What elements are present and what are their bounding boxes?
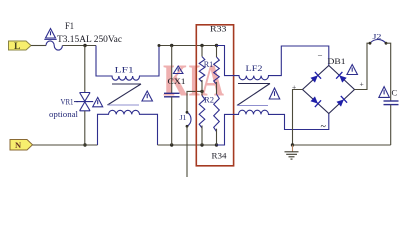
diode D4 (bottom-right)	[336, 96, 347, 108]
svg-text:F1: F1	[65, 21, 74, 31]
inductor LF2 bottom winding	[217, 110, 329, 145]
wire VR1 top	[84, 46, 86, 93]
resistor R2	[201, 80, 203, 96]
svg-text:DB1: DB1	[328, 56, 346, 66]
wire J1 tap	[187, 91, 202, 112]
node R1-R2 junction	[200, 90, 203, 93]
LF1 core bar top	[112, 83, 141, 85]
resistor R1	[201, 46, 203, 57]
capacitor CX1	[171, 46, 173, 94]
svg-text:CX1: CX1	[168, 77, 186, 86]
svg-text:–: –	[317, 51, 323, 60]
resistor R34	[216, 82, 218, 94]
diode D3 (left-bottom)	[310, 95, 321, 107]
wire ground stub	[292, 145, 294, 152]
wire bridge left to ground node	[293, 90, 303, 146]
inductor LF1 top winding	[96, 46, 159, 81]
svg-text:N: N	[15, 140, 22, 150]
warning triangle near LF2	[269, 88, 280, 99]
terminal L	[9, 41, 32, 50]
node N-VR1 junction	[83, 143, 86, 146]
svg-text:LF1: LF1	[115, 64, 134, 74]
svg-text:+: +	[360, 80, 364, 89]
highlight box	[196, 25, 233, 166]
svg-text:R2: R2	[204, 94, 214, 104]
wire L to fuse	[31, 45, 46, 47]
node ground junction	[291, 143, 294, 146]
svg-text:LF2: LF2	[246, 63, 263, 73]
svg-text:~: ~	[321, 122, 327, 133]
resistor R33	[216, 46, 218, 58]
wire J2 to capacitor	[386, 43, 391, 101]
warning triangle near fuse	[46, 29, 56, 39]
svg-text:R1: R1	[204, 59, 214, 69]
diode D2 (top-right)	[336, 72, 347, 84]
warning triangle near VR1	[93, 97, 103, 106]
wire VR1 bottom	[84, 111, 86, 145]
LF1 core bar bottom	[108, 104, 139, 106]
varistor VR1	[76, 93, 93, 111]
LF2 core bar top	[238, 83, 270, 85]
warning triangle near CX1	[173, 66, 183, 74]
svg-text:R34: R34	[212, 151, 228, 161]
node R2 bottom	[200, 143, 203, 146]
wire DC return rail	[293, 144, 391, 146]
node CX1 top	[170, 44, 173, 47]
node R33 top	[215, 44, 218, 47]
node CX1 bottom	[170, 143, 173, 146]
node R1 top	[200, 44, 203, 47]
wire top rail	[159, 45, 225, 47]
svg-text:J2: J2	[373, 32, 382, 41]
wire fuse to LF1	[62, 45, 96, 47]
svg-text:T3.15AL 250Vac: T3.15AL 250Vac	[57, 35, 122, 45]
warning triangle near LF1	[142, 91, 153, 101]
capacitor C	[384, 100, 399, 102]
svg-text:C: C	[392, 88, 398, 98]
wire N rail mid	[158, 144, 225, 146]
LF2 coupling diagonal	[237, 84, 270, 106]
inductor LF1 bottom winding	[98, 110, 158, 145]
fuse F1	[46, 41, 62, 50]
wire bridge right to J2	[355, 43, 371, 89]
svg-text:VR1: VR1	[61, 97, 74, 107]
svg-text:R33: R33	[210, 24, 227, 34]
LF1 coupling diagonal	[108, 84, 142, 105]
ground	[285, 152, 299, 159]
bridge DB1 outline	[303, 66, 355, 114]
jumper J2	[370, 40, 386, 44]
node L-VR1 junction	[83, 44, 86, 47]
svg-text:J1: J1	[180, 114, 188, 122]
svg-text:optional: optional	[49, 109, 79, 119]
warning triangle near C	[379, 87, 390, 98]
node R34 bottom	[215, 143, 218, 146]
wire N rail	[33, 144, 98, 146]
inductor LF2 top winding	[217, 46, 329, 80]
terminal N	[10, 140, 33, 151]
wire J1 down	[186, 126, 188, 177]
diode D1 (left-top)	[310, 72, 321, 84]
warning triangle near DB1	[347, 65, 358, 75]
svg-text:L: L	[14, 42, 20, 52]
jumper J1	[187, 112, 191, 126]
LF2 core bar bottom	[237, 105, 268, 107]
